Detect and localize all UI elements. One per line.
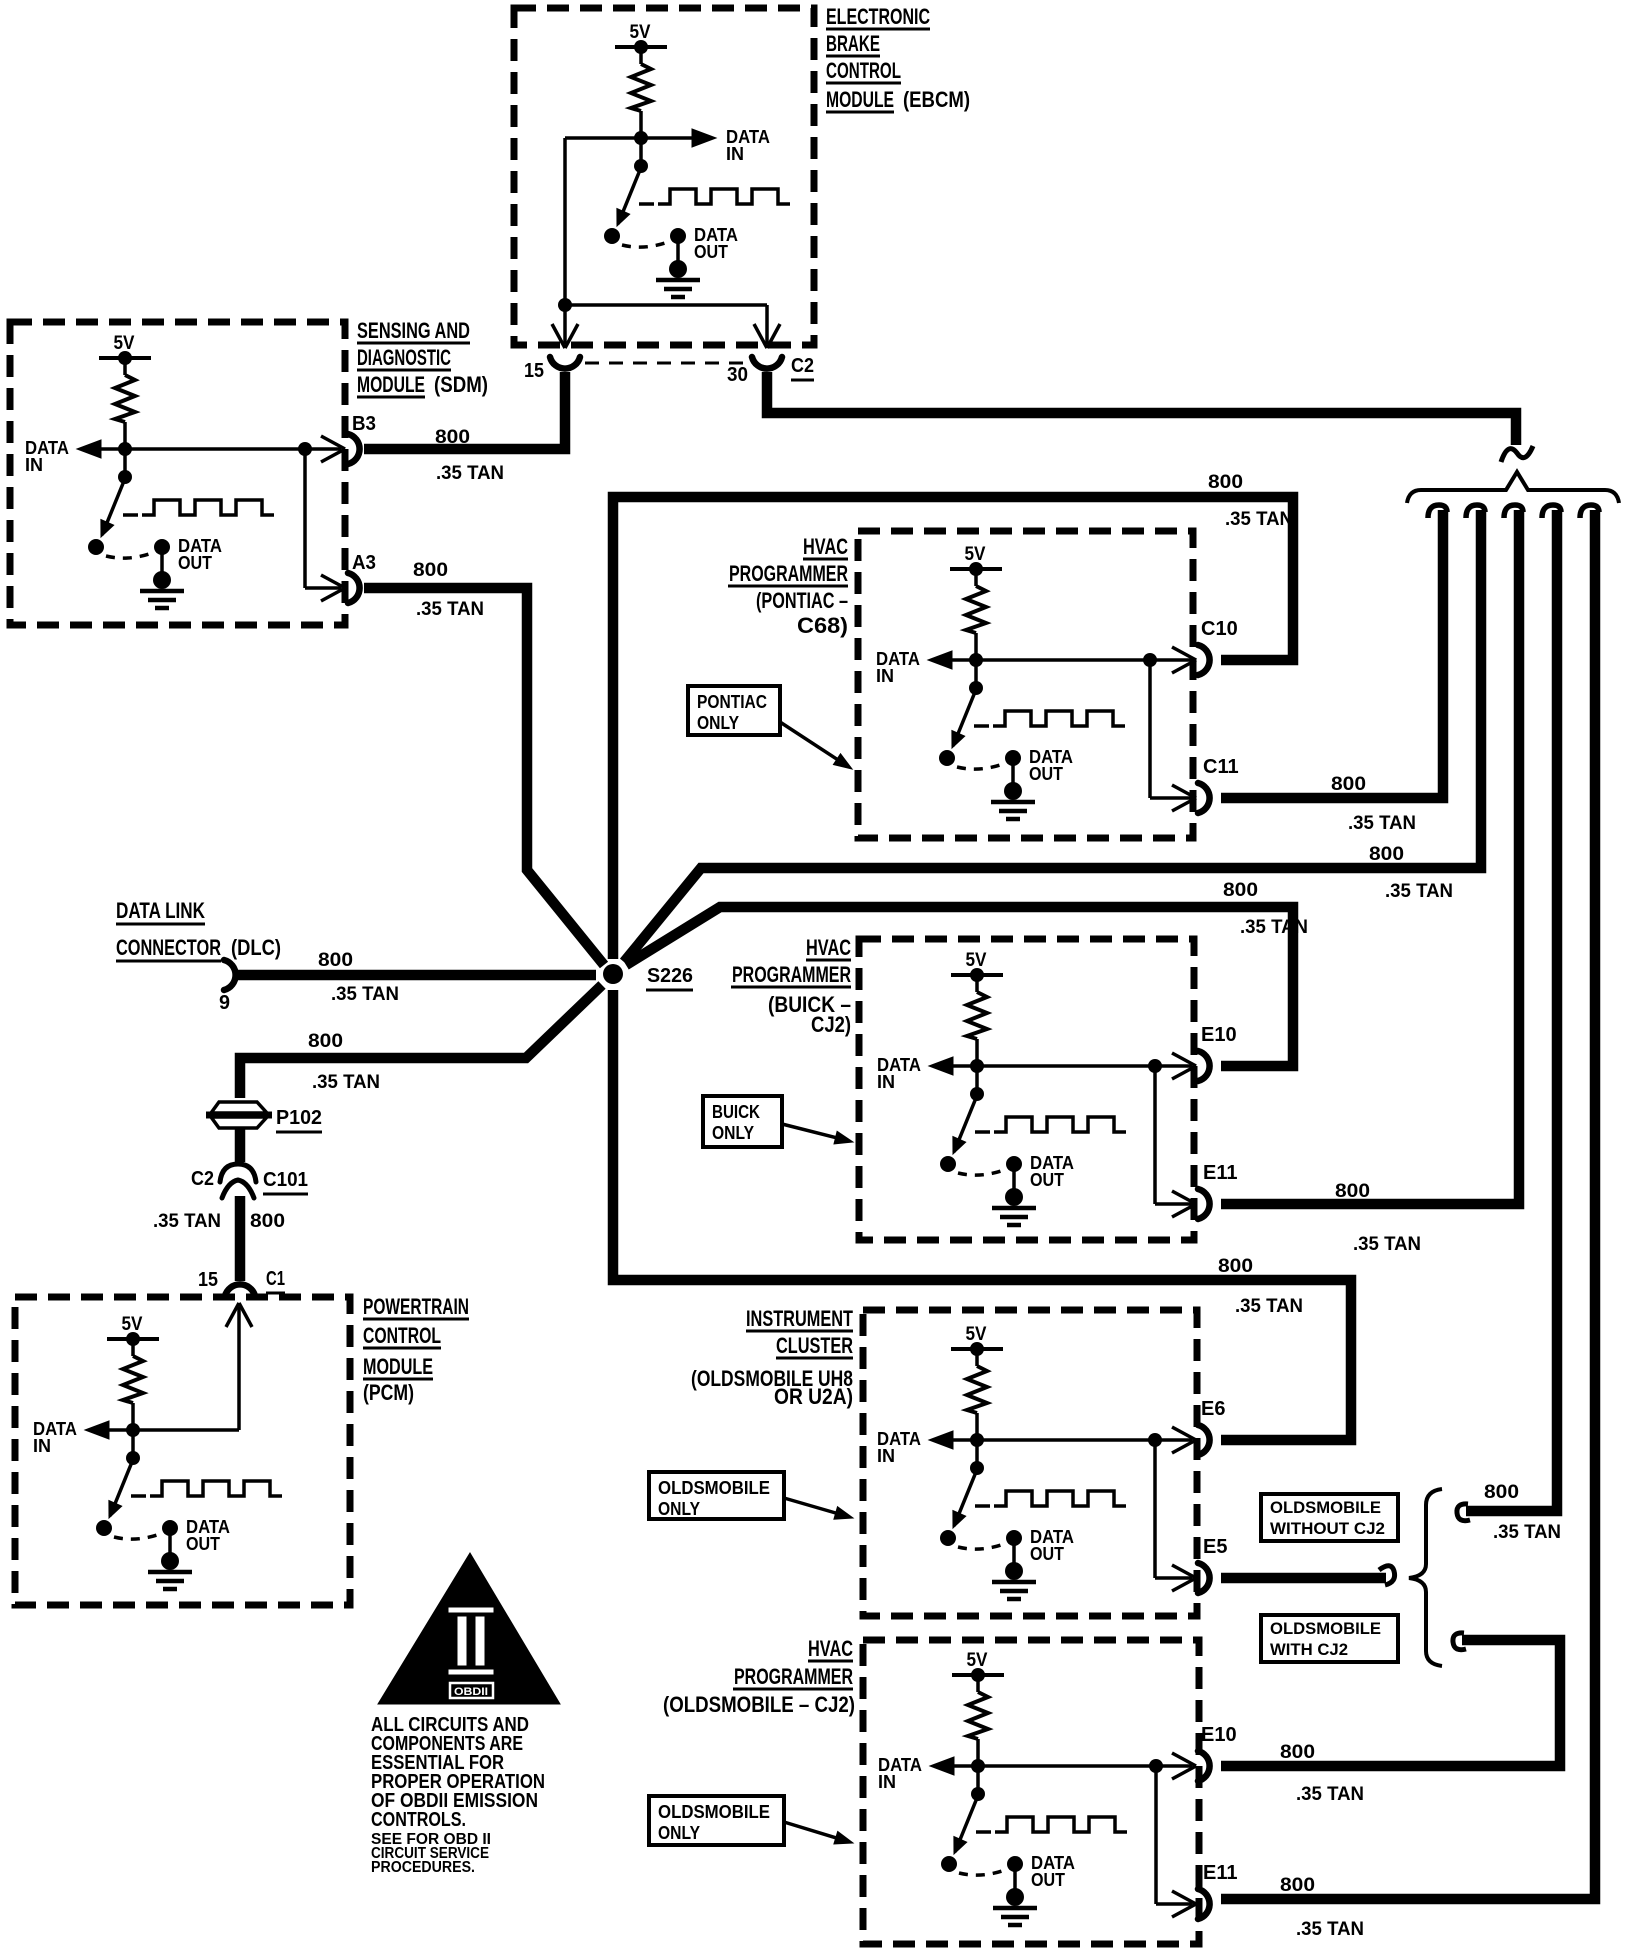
INSTRUMENT CLUSTER connector pin E5 bbox=[1198, 1563, 1210, 1593]
svg-text:B3: B3 bbox=[352, 413, 376, 435]
svg-text:C2: C2 bbox=[191, 1168, 214, 1190]
EBCM DATA OUT node bbox=[670, 228, 686, 244]
svg-text:S226: S226 bbox=[647, 965, 693, 987]
svg-text:BUICK: BUICK bbox=[712, 1102, 760, 1122]
module box PCM bbox=[15, 1297, 350, 1605]
wire bundle to OLDSMOBILE WITHOUT CJ2 bbox=[1466, 510, 1557, 1511]
PCM switch dashed throw bbox=[114, 1532, 165, 1539]
svg-text:DIAGNOSTIC: DIAGNOSTIC bbox=[357, 345, 451, 370]
EBCM connector C2 dashed link bbox=[585, 362, 748, 365]
svg-text:IN: IN bbox=[878, 1772, 896, 1792]
INSTRUMENT CLUSTER switch dashed throw bbox=[958, 1542, 1009, 1549]
OLDS HVAC DATA IN arrow bbox=[952, 1764, 978, 1768]
PCM switch arm bbox=[110, 1462, 132, 1516]
OLDS HVAC data waveform bbox=[976, 1830, 991, 1834]
OLDS HVAC switch pivot node bbox=[976, 1766, 980, 1794]
svg-text:C101: C101 bbox=[263, 1169, 308, 1191]
svg-text:800: 800 bbox=[413, 560, 448, 581]
svg-text:SENSING AND: SENSING AND bbox=[357, 318, 470, 343]
PONTIAC HVAC connector pin C11 bbox=[1198, 783, 1210, 813]
svg-text:800: 800 bbox=[435, 427, 470, 448]
INSTRUMENT CLUSTER data waveform bbox=[975, 1504, 990, 1508]
inline connector P102 bbox=[211, 1102, 267, 1113]
PONTIAC HVAC pull-up resistor bbox=[974, 569, 978, 586]
inline connector C101 bbox=[220, 1164, 256, 1182]
svg-text:C1: C1 bbox=[266, 1268, 285, 1290]
svg-text:CONNECTOR: CONNECTOR bbox=[116, 935, 221, 960]
module box SDM bbox=[10, 322, 345, 625]
wire S226 to bundle (second) bbox=[624, 510, 1481, 962]
INSTRUMENT CLUSTER 5V supply bar bbox=[951, 1347, 1003, 1351]
svg-text:5V: 5V bbox=[122, 1314, 143, 1335]
svg-text:5V: 5V bbox=[114, 333, 135, 354]
EBCM connector pin 30 bbox=[752, 357, 782, 369]
wire S226 to cluster E6 bbox=[613, 990, 1351, 1440]
svg-text:5V: 5V bbox=[630, 22, 651, 43]
EBCM connector pin 15 bbox=[550, 357, 580, 369]
DLC connector pin 9 bbox=[224, 960, 236, 990]
callout box OLDSMOBILE ONLY (cluster) bbox=[649, 1472, 784, 1519]
svg-text:E5: E5 bbox=[1203, 1536, 1227, 1558]
SDM DATA OUT node bbox=[154, 539, 170, 555]
break symbol at EBCM wire end bbox=[1501, 446, 1533, 462]
OLDS HVAC wire to E11 bbox=[1154, 1766, 1158, 1904]
PCM data waveform bbox=[131, 1494, 146, 1498]
BUICK HVAC wire to E11 bbox=[1153, 1066, 1157, 1204]
wire Olds E10 via OLDSMOBILE WITH CJ2 break bbox=[1221, 1640, 1560, 1766]
PONTIAC HVAC ground bbox=[1011, 758, 1015, 791]
SDM DATA IN arrow bbox=[99, 447, 125, 451]
PONTIAC HVAC data waveform bbox=[974, 724, 989, 728]
svg-text:WITHOUT CJ2: WITHOUT CJ2 bbox=[1270, 1519, 1385, 1538]
svg-text:800: 800 bbox=[1484, 1482, 1519, 1503]
svg-text:E6: E6 bbox=[1201, 1398, 1225, 1420]
svg-text:5V: 5V bbox=[967, 1650, 988, 1671]
svg-text:800: 800 bbox=[1223, 880, 1258, 901]
svg-text:PROGRAMMER: PROGRAMMER bbox=[734, 1664, 853, 1689]
PCM 5V supply bar bbox=[107, 1337, 159, 1341]
svg-text:(DLC): (DLC) bbox=[231, 935, 281, 960]
svg-text:800: 800 bbox=[1208, 472, 1243, 493]
PONTIAC HVAC 5V supply bar bbox=[950, 567, 1002, 571]
svg-text:800: 800 bbox=[318, 950, 353, 971]
OLDS HVAC DATA IN node bbox=[971, 1759, 985, 1773]
OLDS HVAC connector pin E10 bbox=[1198, 1751, 1210, 1781]
svg-text:PROCEDURES.: PROCEDURES. bbox=[371, 1859, 475, 1876]
PONTIAC HVAC switch dashed throw bbox=[957, 762, 1008, 769]
svg-text:ONLY: ONLY bbox=[712, 1123, 754, 1143]
svg-text:DATA LINK: DATA LINK bbox=[116, 898, 205, 923]
svg-text:(PCM): (PCM) bbox=[363, 1380, 414, 1405]
svg-text:OUT: OUT bbox=[186, 1534, 220, 1554]
svg-text:E10: E10 bbox=[1201, 1024, 1237, 1046]
svg-text:BRAKE: BRAKE bbox=[826, 31, 880, 56]
svg-text:800: 800 bbox=[308, 1031, 343, 1052]
svg-text:IN: IN bbox=[877, 1072, 895, 1092]
callout box PONTIAC ONLY bbox=[688, 686, 780, 735]
svg-text:.35 TAN: .35 TAN bbox=[1493, 1522, 1561, 1543]
wire Pontiac C11 to bundle bbox=[1221, 510, 1443, 798]
svg-text:C11: C11 bbox=[1203, 756, 1239, 778]
PONTIAC HVAC wire to C11 bbox=[1148, 660, 1152, 798]
OLDS HVAC 5V supply bar bbox=[952, 1673, 1004, 1677]
OLDS HVAC switch contact node bbox=[941, 1856, 957, 1872]
INSTRUMENT CLUSTER DATA IN arrow bbox=[951, 1438, 977, 1442]
EBCM output arrow to pin 15 bbox=[563, 305, 567, 344]
PONTIAC HVAC connector pin C10 bbox=[1198, 645, 1210, 675]
svg-text:.35 TAN: .35 TAN bbox=[331, 984, 399, 1005]
splice S226 bbox=[603, 964, 623, 984]
INSTRUMENT CLUSTER switch pivot node bbox=[975, 1440, 979, 1468]
PCM DATA IN arrow bbox=[107, 1428, 133, 1432]
svg-text:800: 800 bbox=[1218, 1256, 1253, 1277]
svg-text:MODULE: MODULE bbox=[826, 87, 894, 112]
svg-text:HVAC: HVAC bbox=[803, 534, 848, 559]
EBCM output arrow to pin 30 bbox=[765, 305, 769, 344]
svg-text:800: 800 bbox=[1280, 1875, 1315, 1896]
module box HVAC PROGRAMMER OLDSMOBILE bbox=[863, 1640, 1199, 1944]
OLDS HVAC pull-up resistor bbox=[976, 1675, 980, 1692]
svg-text:5V: 5V bbox=[965, 544, 986, 565]
PCM switch contact node bbox=[96, 1520, 112, 1536]
SDM 5V supply bar bbox=[99, 356, 151, 360]
svg-text:HVAC: HVAC bbox=[808, 1636, 853, 1661]
svg-text:IN: IN bbox=[25, 455, 43, 475]
svg-text:30: 30 bbox=[727, 364, 748, 386]
INSTRUMENT CLUSTER wire to E5 bbox=[1153, 1440, 1157, 1578]
EBCM data waveform bbox=[639, 202, 654, 206]
svg-text:800: 800 bbox=[1335, 1181, 1370, 1202]
svg-text:OLDSMOBILE: OLDSMOBILE bbox=[1270, 1619, 1381, 1638]
EBCM switch arm bbox=[618, 170, 640, 224]
svg-text:15: 15 bbox=[524, 360, 544, 382]
svg-text:.35 TAN: .35 TAN bbox=[153, 1211, 221, 1232]
svg-text:C68): C68) bbox=[797, 613, 848, 638]
INSTRUMENT CLUSTER DATA IN node bbox=[970, 1433, 984, 1447]
OLDS HVAC ground bbox=[1013, 1864, 1017, 1897]
SDM wire to A3 bbox=[303, 449, 307, 588]
PCM ground bbox=[168, 1528, 172, 1561]
svg-text:.35 TAN: .35 TAN bbox=[1240, 917, 1308, 938]
EBCM DATA IN node bbox=[634, 131, 648, 145]
svg-text:.35 TAN: .35 TAN bbox=[1353, 1234, 1421, 1255]
svg-text:.35 TAN: .35 TAN bbox=[312, 1072, 380, 1093]
svg-text:OLDSMOBILE: OLDSMOBILE bbox=[1270, 1498, 1381, 1517]
PONTIAC HVAC DATA IN node bbox=[969, 653, 983, 667]
wire EBCM 30 to bundle break bbox=[767, 372, 1516, 445]
wire S226 to Buick E10 bbox=[626, 907, 1293, 1066]
svg-text:OLDSMOBILE: OLDSMOBILE bbox=[658, 1478, 770, 1498]
SDM switch arm bbox=[102, 481, 124, 535]
svg-text:OUT: OUT bbox=[1031, 1870, 1065, 1890]
svg-text:(EBCM): (EBCM) bbox=[903, 87, 970, 112]
svg-text:800: 800 bbox=[1369, 844, 1404, 865]
svg-text:CJ2): CJ2) bbox=[811, 1012, 851, 1037]
module box HVAC PROGRAMMER PONTIAC bbox=[858, 531, 1193, 838]
module box HVAC PROGRAMMER BUICK bbox=[859, 939, 1194, 1240]
BUICK HVAC switch dashed throw bbox=[958, 1168, 1009, 1175]
svg-text:MODULE: MODULE bbox=[357, 372, 425, 397]
INSTRUMENT CLUSTER wire to E6 bbox=[977, 1438, 1155, 1442]
OLDS HVAC DATA OUT node bbox=[1007, 1856, 1023, 1872]
svg-text:ONLY: ONLY bbox=[658, 1499, 700, 1519]
wire cluster E5 with break hook bbox=[1221, 1573, 1386, 1584]
OLDS HVAC wire to E10 bbox=[978, 1764, 1156, 1768]
EBCM wire junction to output bbox=[565, 136, 641, 140]
PONTIAC HVAC DATA IN arrow bbox=[950, 658, 976, 662]
BUICK HVAC 5V supply bar bbox=[951, 973, 1003, 977]
BUICK HVAC wire to E10 bbox=[977, 1064, 1155, 1068]
svg-text:CONTROLS.: CONTROLS. bbox=[371, 1809, 466, 1831]
OLDS HVAC switch dashed throw bbox=[959, 1868, 1010, 1875]
note boxes OLDSMOBILE WITHOUT/WITH CJ2 bbox=[1261, 1494, 1398, 1541]
svg-text:E10: E10 bbox=[1201, 1724, 1237, 1746]
svg-text:HVAC: HVAC bbox=[806, 935, 851, 960]
INSTRUMENT CLUSTER switch arm bbox=[954, 1472, 976, 1526]
svg-text:(PONTIAC –: (PONTIAC – bbox=[756, 588, 848, 613]
BUICK HVAC pull-up resistor bbox=[975, 975, 979, 992]
svg-text:ELECTRONIC: ELECTRONIC bbox=[826, 4, 930, 29]
svg-text:IN: IN bbox=[876, 666, 894, 686]
PONTIAC HVAC DATA OUT node bbox=[1005, 750, 1021, 766]
svg-text:INSTRUMENT: INSTRUMENT bbox=[746, 1306, 853, 1331]
svg-text:IN: IN bbox=[877, 1446, 895, 1466]
svg-text:IN: IN bbox=[33, 1436, 51, 1456]
svg-text:CONTROL: CONTROL bbox=[363, 1323, 441, 1348]
INSTRUMENT CLUSTER connector pin E6 bbox=[1198, 1425, 1210, 1455]
SDM DATA IN node bbox=[118, 442, 132, 456]
svg-text:MODULE: MODULE bbox=[363, 1354, 433, 1379]
svg-text:.35 TAN: .35 TAN bbox=[416, 599, 484, 620]
svg-text:5V: 5V bbox=[966, 950, 987, 971]
svg-text:OLDSMOBILE: OLDSMOBILE bbox=[658, 1802, 770, 1822]
BUICK HVAC DATA IN arrow bbox=[951, 1064, 977, 1068]
svg-text:.35 TAN: .35 TAN bbox=[1296, 1919, 1364, 1940]
SDM switch pivot node bbox=[123, 449, 127, 477]
brace for OLDSMOBILE notes bbox=[1409, 1489, 1442, 1666]
BUICK HVAC data waveform bbox=[975, 1130, 990, 1134]
SDM connector pin B3 bbox=[348, 434, 360, 464]
svg-text:.35 TAN: .35 TAN bbox=[1385, 881, 1453, 902]
EBCM DATA IN arrow bbox=[641, 136, 694, 140]
wire P102 to C101 bbox=[235, 1128, 246, 1162]
SDM ground bbox=[160, 547, 164, 580]
BUICK HVAC ground bbox=[1012, 1164, 1016, 1197]
wire Olds E11 to bundle bbox=[1221, 510, 1595, 1899]
svg-text:CLUSTER: CLUSTER bbox=[776, 1333, 853, 1358]
svg-text:PONTIAC: PONTIAC bbox=[697, 692, 767, 712]
svg-text:C2: C2 bbox=[791, 355, 814, 377]
svg-text:800: 800 bbox=[250, 1211, 285, 1232]
SDM pull-up resistor bbox=[123, 358, 127, 375]
svg-text:OUT: OUT bbox=[1029, 764, 1063, 784]
module box INSTRUMENT CLUSTER bbox=[863, 1310, 1197, 1616]
svg-text:PROGRAMMER: PROGRAMMER bbox=[732, 962, 851, 987]
PCM wire junction to C1 bbox=[133, 1428, 239, 1432]
svg-text:OUT: OUT bbox=[1030, 1544, 1064, 1564]
SDM switch contact node bbox=[88, 539, 104, 555]
wire SDM A3 to S226 bbox=[364, 588, 604, 965]
svg-text:E11: E11 bbox=[1203, 1862, 1237, 1884]
svg-text:.35 TAN: .35 TAN bbox=[1235, 1296, 1303, 1317]
svg-text:15: 15 bbox=[198, 1269, 218, 1291]
svg-text:OBDII: OBDII bbox=[454, 1686, 488, 1698]
EBCM 5V supply bar bbox=[615, 45, 667, 49]
svg-text:9: 9 bbox=[219, 992, 230, 1014]
svg-text:.35 TAN: .35 TAN bbox=[436, 463, 504, 484]
svg-text:A3: A3 bbox=[352, 552, 376, 574]
OBD II warning triangle bbox=[378, 1553, 560, 1704]
wire C101 to PCM C1 bbox=[235, 1196, 246, 1281]
svg-text:IN: IN bbox=[726, 144, 744, 164]
svg-text:(SDM): (SDM) bbox=[434, 372, 488, 397]
OLDS HVAC switch arm bbox=[955, 1798, 977, 1852]
wire S226 to Pontiac C10 bbox=[613, 497, 1293, 959]
BUICK HVAC DATA IN node bbox=[970, 1059, 984, 1073]
PCM switch pivot node bbox=[131, 1430, 135, 1458]
BUICK HVAC switch contact node bbox=[940, 1156, 956, 1172]
PONTIAC HVAC switch contact node bbox=[939, 750, 955, 766]
PCM DATA IN node bbox=[126, 1423, 140, 1437]
svg-text:POWERTRAIN: POWERTRAIN bbox=[363, 1294, 469, 1319]
BUICK HVAC connector pin E10 bbox=[1198, 1051, 1210, 1081]
BUICK HVAC DATA OUT node bbox=[1006, 1156, 1022, 1172]
svg-text:OUT: OUT bbox=[694, 242, 728, 262]
svg-text:(OLDSMOBILE – CJ2): (OLDSMOBILE – CJ2) bbox=[663, 1692, 855, 1717]
INSTRUMENT CLUSTER DATA OUT node bbox=[1006, 1530, 1022, 1546]
OLDS HVAC connector pin E11 bbox=[1198, 1889, 1210, 1919]
EBCM ground bbox=[676, 236, 680, 269]
INSTRUMENT CLUSTER ground bbox=[1012, 1538, 1016, 1571]
INSTRUMENT CLUSTER pull-up resistor bbox=[975, 1349, 979, 1366]
svg-text:OR U2A): OR U2A) bbox=[774, 1384, 853, 1409]
svg-text:P102: P102 bbox=[276, 1107, 322, 1129]
svg-text:800: 800 bbox=[1331, 774, 1366, 795]
svg-text:OUT: OUT bbox=[1030, 1170, 1064, 1190]
wire S226 to P102 bbox=[240, 985, 602, 1098]
svg-text:5V: 5V bbox=[966, 1324, 987, 1345]
SDM switch dashed throw bbox=[106, 551, 157, 558]
svg-text:ONLY: ONLY bbox=[697, 713, 739, 733]
BUICK HVAC switch arm bbox=[954, 1098, 976, 1152]
callout box OLDSMOBILE ONLY (HVAC) bbox=[649, 1796, 784, 1845]
svg-text:C10: C10 bbox=[1201, 618, 1238, 640]
svg-text:PROGRAMMER: PROGRAMMER bbox=[729, 561, 848, 586]
PCM connector pin 15 / C1 bbox=[225, 1284, 255, 1296]
svg-text:.35 TAN: .35 TAN bbox=[1225, 509, 1293, 530]
svg-text:800: 800 bbox=[1280, 1742, 1315, 1763]
callout box BUICK ONLY bbox=[703, 1096, 782, 1147]
PCM DATA OUT node bbox=[162, 1520, 178, 1536]
svg-text:E11: E11 bbox=[1203, 1162, 1237, 1184]
EBCM switch pivot node bbox=[639, 138, 643, 166]
svg-text:WITH CJ2: WITH CJ2 bbox=[1270, 1640, 1348, 1659]
BUICK HVAC switch pivot node bbox=[975, 1066, 979, 1094]
PONTIAC HVAC wire to C10 bbox=[976, 658, 1150, 662]
wire SDM B3 to EBCM 15 bbox=[364, 372, 565, 449]
SDM wire junction to outputs bbox=[125, 447, 305, 451]
svg-text:CONTROL: CONTROL bbox=[826, 58, 901, 83]
svg-text:.35 TAN: .35 TAN bbox=[1348, 813, 1416, 834]
INSTRUMENT CLUSTER switch contact node bbox=[940, 1530, 956, 1546]
bundle wire hooks bbox=[1428, 505, 1447, 518]
EBCM switch dashed throw bbox=[622, 240, 673, 247]
EBCM pull-up resistor bbox=[639, 47, 643, 64]
wire DLC to S226 bbox=[238, 970, 596, 981]
PONTIAC HVAC switch pivot node bbox=[974, 660, 978, 688]
svg-text:ONLY: ONLY bbox=[658, 1823, 700, 1843]
SDM data waveform bbox=[123, 513, 138, 517]
module box EBCM bbox=[514, 8, 814, 345]
SDM connector pin A3 bbox=[348, 573, 360, 603]
bundle brace bbox=[1407, 472, 1619, 503]
PCM pull-up resistor bbox=[131, 1339, 135, 1356]
EBCM switch contact node bbox=[604, 228, 620, 244]
svg-text:OUT: OUT bbox=[178, 553, 212, 573]
wire Buick E11 to bundle bbox=[1221, 510, 1519, 1204]
svg-text:.35 TAN: .35 TAN bbox=[1296, 1784, 1364, 1805]
PONTIAC HVAC switch arm bbox=[953, 692, 975, 746]
BUICK HVAC connector pin E11 bbox=[1198, 1189, 1210, 1219]
